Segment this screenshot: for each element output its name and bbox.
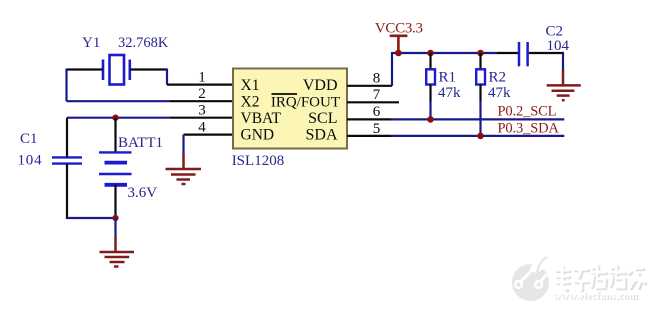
wire crystal left plate to left corner: [67, 68, 104, 70]
svg-text:BATT1: BATT1: [118, 135, 163, 151]
wire left corner down to X2 row: [65, 69, 67, 102]
svg-text:104: 104: [18, 153, 43, 169]
svg-text:47k: 47k: [488, 85, 511, 101]
wire crystal right plate to right corner: [130, 68, 167, 70]
svg-text:X1: X1: [241, 77, 260, 94]
wire junction down to ground: [114, 218, 116, 237]
ground (chip GND pin 4): [166, 154, 202, 184]
svg-text:Y1: Y1: [82, 35, 100, 51]
wire rail corner up: [391, 52, 393, 86]
pin 3 stub: [170, 117, 233, 119]
wire X2 row to chip (pin 2 net): [67, 100, 171, 102]
wire X1 row to chip (pin 1 net): [167, 83, 203, 85]
pin 6 stub: [347, 118, 391, 120]
svg-text:IRQ/FOUT: IRQ/FOUT: [271, 95, 340, 111]
wire VBAT corner down to C1: [66, 118, 68, 158]
crystal Y1: [103, 55, 130, 85]
svg-text:7: 7: [373, 87, 381, 103]
wire R2 bottom to SDA: [479, 101, 481, 136]
op-amp U1: IC ISL1208 body: [233, 69, 347, 149]
junction R1 top: [427, 50, 434, 57]
wire SCL net: [391, 118, 564, 120]
svg-text:8: 8: [373, 71, 381, 87]
ground (C2): [547, 70, 581, 101]
svg-text:P0.2_SCL: P0.2_SCL: [498, 104, 557, 120]
pin 2 stub: [170, 100, 233, 102]
svg-text:ISL1208: ISL1208: [232, 153, 285, 169]
svg-text:X2: X2: [241, 94, 260, 111]
capacitor C1: [52, 157, 82, 163]
junction R1/SCL: [427, 116, 434, 123]
svg-text:GND: GND: [241, 127, 275, 144]
svg-text:VCC3.3: VCC3.3: [375, 20, 423, 36]
svg-text:P0.3_SDA: P0.3_SDA: [498, 120, 560, 136]
svg-text:32.768K: 32.768K: [118, 35, 169, 51]
wire GND pin row: [184, 134, 234, 136]
junction R2/SDA: [477, 133, 484, 140]
watermark logo disc: [512, 255, 550, 301]
wire bottom horizontal to battery node: [67, 217, 116, 219]
wire C2 left pin: [497, 52, 518, 54]
svg-text:104: 104: [547, 38, 570, 54]
svg-text:VDD: VDD: [303, 77, 338, 94]
pin 8 stub: [347, 85, 392, 87]
battery BATT1: [99, 118, 132, 218]
wire C1 bottom down: [66, 164, 68, 219]
junction VBAT/battery: [112, 115, 118, 121]
wire C2 right pin: [529, 52, 564, 54]
svg-text:VBAT: VBAT: [241, 110, 282, 127]
overbar on IRQ: [272, 93, 298, 95]
svg-text:6: 6: [373, 104, 381, 120]
wire C2 corner down: [562, 53, 564, 71]
ground (battery): [100, 236, 135, 267]
svg-text:5: 5: [373, 121, 381, 137]
power VCC3.3 port: [390, 36, 408, 53]
pin 7 stub: [347, 101, 399, 103]
svg-text:47k: 47k: [438, 85, 461, 101]
capacitor C2: [519, 42, 528, 66]
junction VCC stem: [395, 50, 402, 57]
svg-text:3: 3: [198, 103, 206, 119]
wire VCC rail: [392, 52, 497, 54]
svg-text:SCL: SCL: [308, 110, 337, 127]
wire SDA net: [391, 135, 564, 137]
wire right corner down to X1 row: [166, 69, 168, 85]
svg-text:4: 4: [198, 120, 206, 136]
svg-text:R1: R1: [439, 70, 457, 86]
wire R1 bottom to SCL: [429, 101, 431, 119]
svg-text:3.6V: 3.6V: [128, 185, 158, 201]
svg-text:www.elecfans.com: www.elecfans.com: [553, 291, 638, 302]
pin 1 stub: [203, 83, 233, 85]
resistor R1: [426, 53, 435, 101]
junction battery/C1 bottom: [112, 215, 118, 221]
svg-text:R2: R2: [489, 70, 507, 86]
wire GND corner down: [182, 135, 184, 155]
svg-text:C1: C1: [20, 131, 38, 147]
pin 5 stub: [347, 135, 391, 137]
svg-text:2: 2: [198, 86, 206, 102]
junction R2 top: [477, 50, 484, 57]
wire VBAT row (pin 3 net): [67, 117, 170, 119]
svg-text:1: 1: [198, 70, 206, 86]
svg-text:SDA: SDA: [305, 127, 337, 144]
resistor R2: [476, 53, 485, 101]
watermark chinese characters: [556, 265, 646, 291]
